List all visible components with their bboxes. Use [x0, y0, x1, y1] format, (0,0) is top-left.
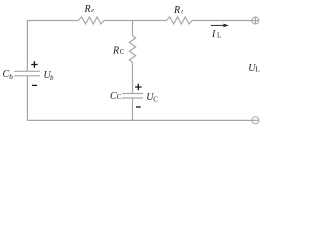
svg-text:b: b — [50, 74, 54, 82]
svg-text:I: I — [211, 29, 216, 40]
svg-text:e: e — [91, 8, 94, 14]
svg-text:R: R — [173, 5, 180, 16]
svg-text:L: L — [255, 65, 260, 74]
svg-text:C: C — [120, 48, 125, 56]
svg-text:L: L — [217, 32, 221, 40]
svg-text:t: t — [181, 9, 183, 16]
svg-text:C: C — [117, 93, 122, 101]
svg-text:b: b — [9, 73, 13, 81]
svg-text:R: R — [112, 45, 119, 56]
svg-text:R: R — [84, 4, 91, 15]
svg-text:C: C — [153, 96, 158, 104]
